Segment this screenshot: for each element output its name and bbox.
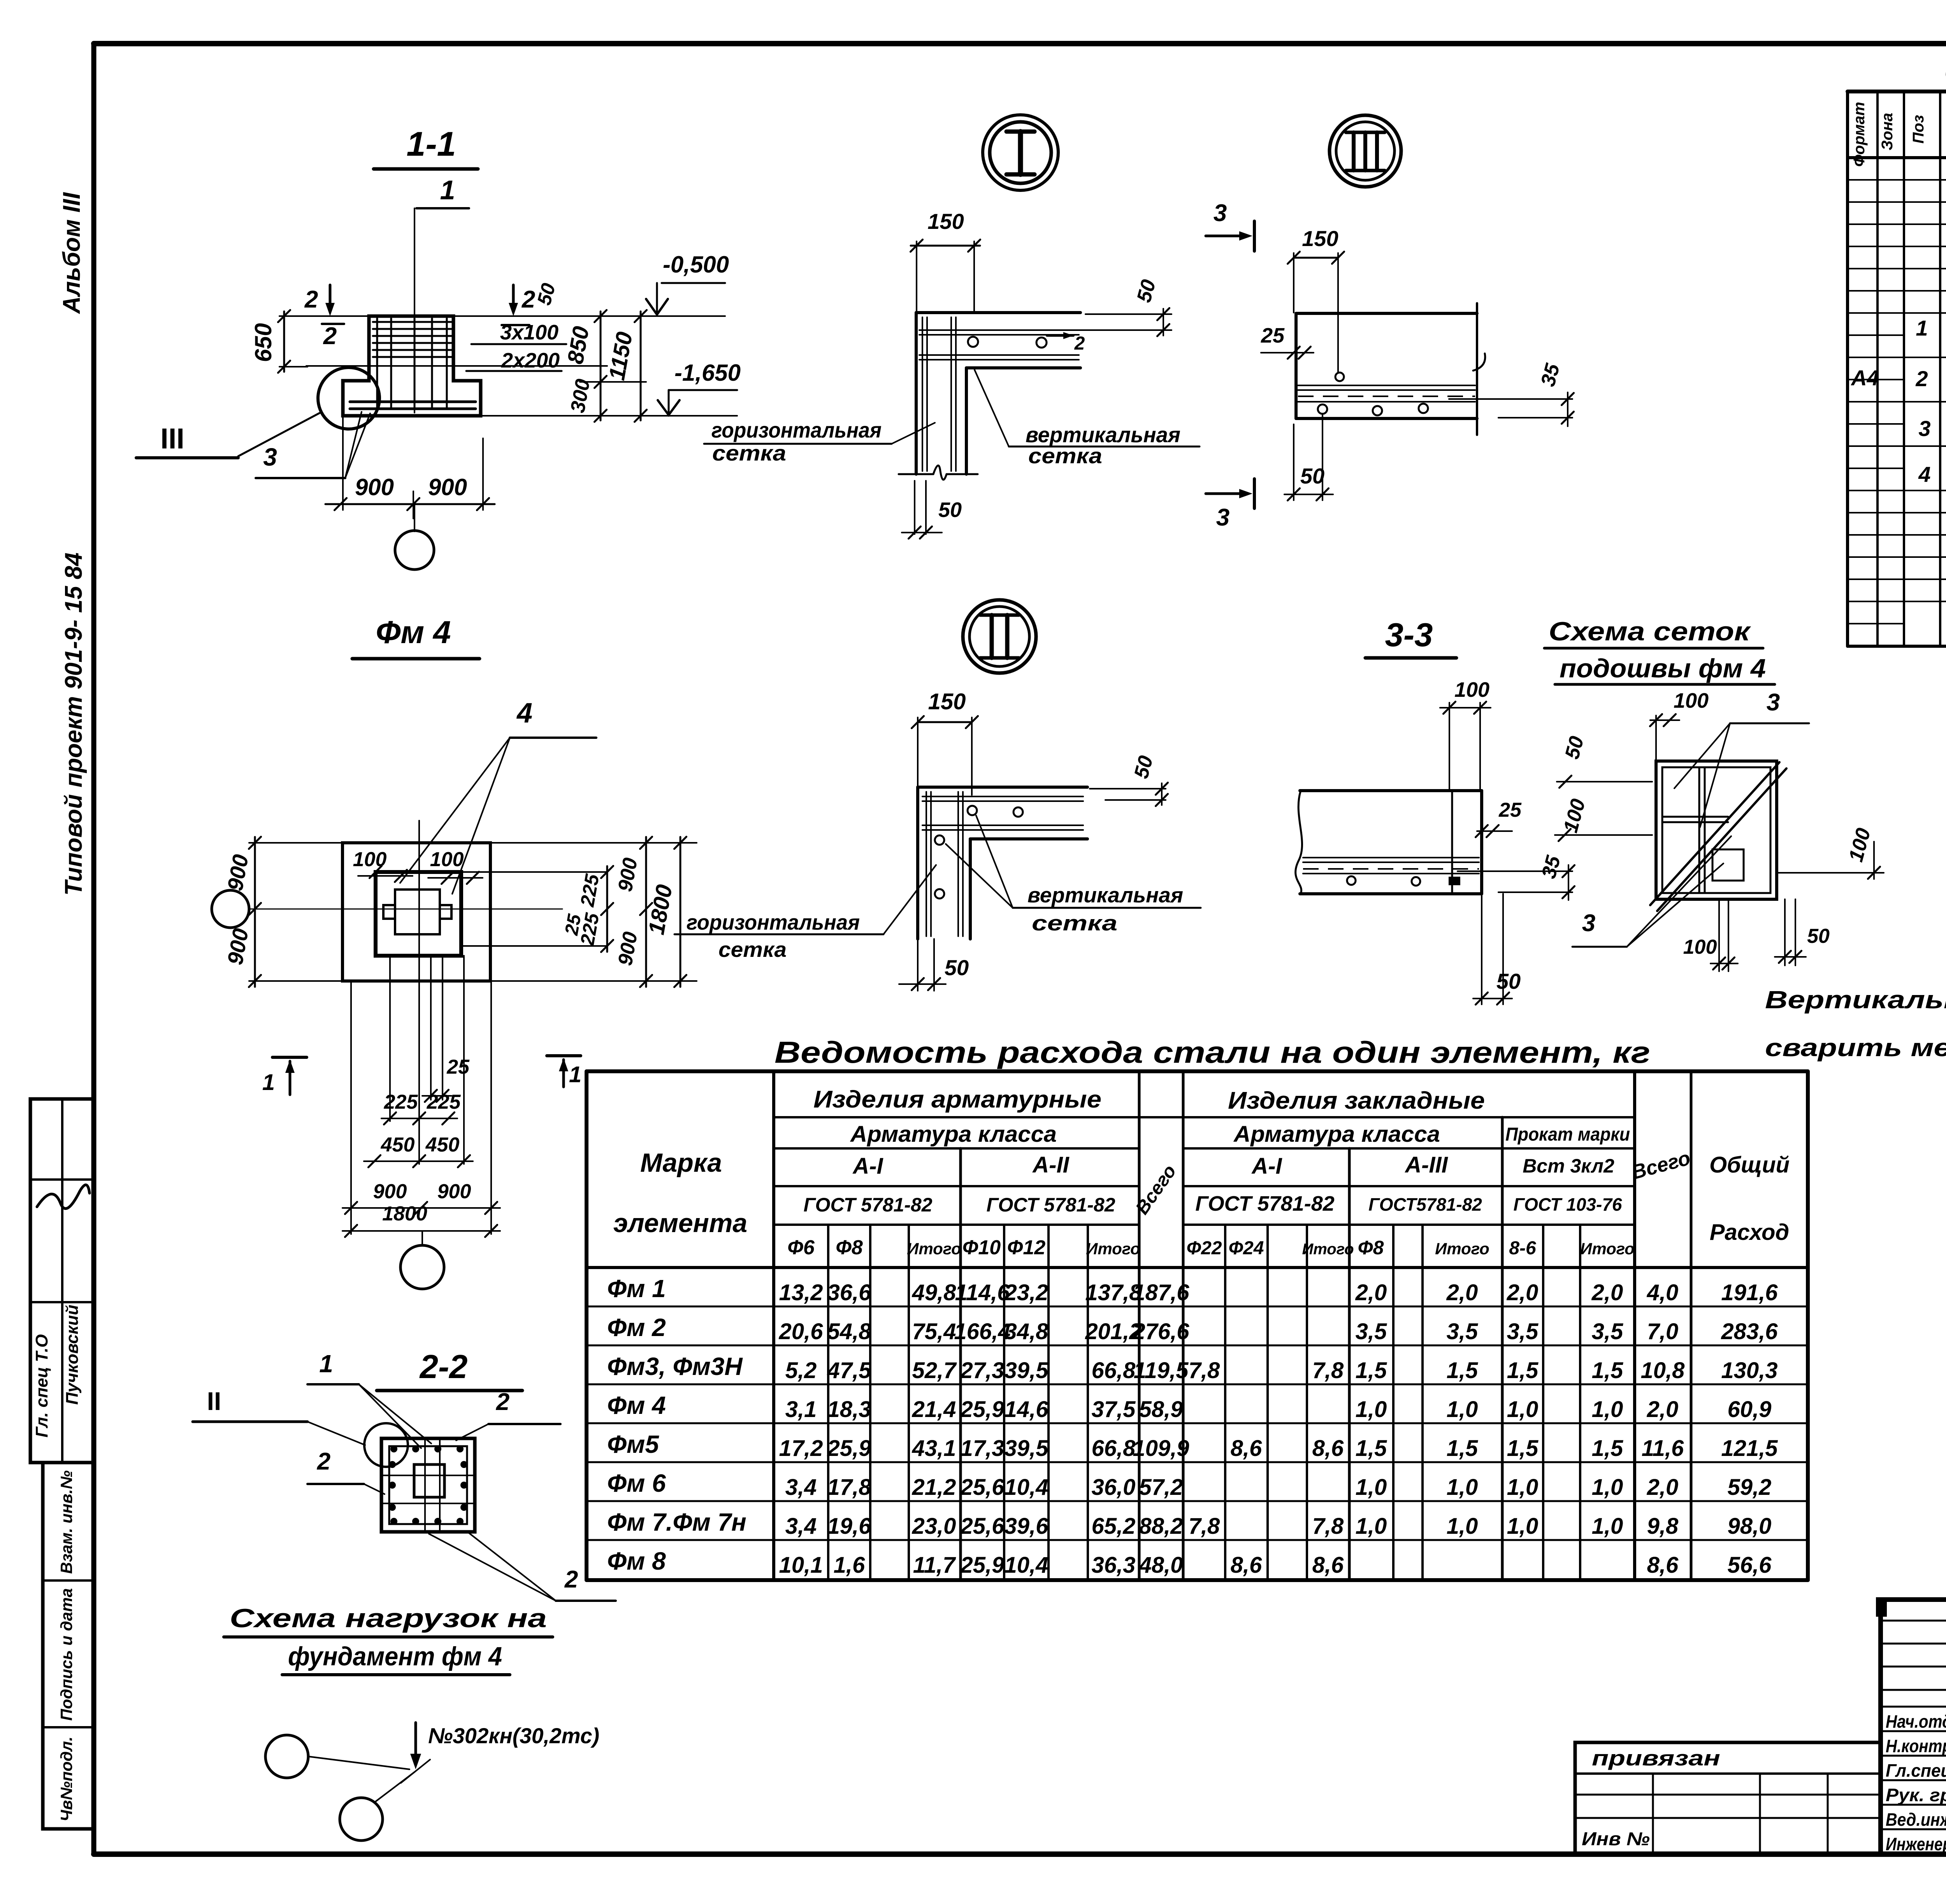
svg-text:ГОСТ 5781-82: ГОСТ 5781-82: [803, 1194, 932, 1216]
svg-text:150: 150: [928, 689, 966, 714]
steel table grid: [587, 1071, 1808, 1580]
detail II horizontal mesh bars: [922, 796, 1083, 830]
svg-text:56,6: 56,6: [1728, 1552, 1772, 1578]
schema title Схема сеток подошвы Фм4: [1544, 617, 1775, 684]
extension lines right of footing: [306, 316, 737, 416]
svg-text:3x100: 3x100: [500, 321, 559, 344]
svg-text:III: III: [160, 422, 184, 455]
svg-text:1,5: 1,5: [1592, 1358, 1623, 1383]
svg-text:1: 1: [262, 1070, 275, 1095]
svg-text:А-II: А-II: [1032, 1152, 1070, 1178]
svg-text:11,6: 11,6: [1642, 1436, 1684, 1461]
svg-text:2: 2: [1074, 333, 1085, 354]
svg-text:А4: А4: [1850, 366, 1879, 390]
svg-text:1,5: 1,5: [1356, 1358, 1387, 1383]
svg-text:А-III: А-III: [1404, 1152, 1448, 1178]
svg-text:Фм 7.Фм 7н: Фм 7.Фм 7н: [607, 1508, 746, 1536]
svg-text:1: 1: [440, 175, 455, 205]
plan dim 225 225 bottom: [381, 1091, 461, 1125]
svg-text:сетка: сетка: [718, 937, 787, 962]
svg-text:1: 1: [569, 1062, 581, 1087]
svg-text:сетка: сетка: [1028, 443, 1102, 468]
label 1 with leaders: [307, 1350, 431, 1448]
svg-text:2: 2: [496, 1389, 509, 1415]
svg-text:20,6: 20,6: [779, 1319, 824, 1344]
schema mesh inner square: [1662, 767, 1770, 893]
plan dim 900 900 right: [614, 837, 652, 987]
svg-text:23,0: 23,0: [912, 1514, 956, 1539]
svg-text:Итого: Итого: [1302, 1241, 1354, 1258]
svg-text:49,8: 49,8: [912, 1280, 957, 1305]
svg-text:54,8: 54,8: [827, 1319, 872, 1344]
svg-text:36,0: 36,0: [1092, 1475, 1136, 1500]
svg-text:4: 4: [516, 698, 532, 729]
svg-text:привязан: привязан: [1592, 1746, 1720, 1770]
schema diagonal bars: [1650, 762, 1786, 911]
detail III slab outline: [1296, 303, 1477, 435]
svg-text:ГОСТ5781-82: ГОСТ5781-82: [1368, 1194, 1482, 1215]
svg-text:1,0: 1,0: [1356, 1397, 1387, 1422]
svg-text:900: 900: [428, 474, 467, 500]
detail II marker circle: [963, 600, 1036, 673]
detail II bar sections: [935, 806, 1023, 898]
svg-text:50: 50: [938, 498, 962, 522]
svg-text:1800: 1800: [382, 1203, 427, 1225]
section 3-3 dim 50: [1473, 894, 1521, 1005]
svg-text:900: 900: [355, 474, 394, 500]
section 3-3 dim 35: [1458, 853, 1575, 900]
svg-text:25,6: 25,6: [960, 1514, 1005, 1539]
svg-text:Ф12: Ф12: [1007, 1236, 1046, 1259]
svg-text:Рук. гр: Рук. гр: [1886, 1785, 1946, 1805]
svg-text:1,0: 1,0: [1592, 1475, 1623, 1500]
section mark 2 right with 50: [502, 281, 560, 325]
svg-text:10,1: 10,1: [779, 1552, 823, 1578]
axis bubble 2 with leader: [340, 1772, 414, 1841]
svg-text:17,2: 17,2: [779, 1436, 823, 1461]
svg-text:3: 3: [1216, 504, 1229, 531]
plan outer square: [342, 843, 490, 981]
svg-text:3: 3: [263, 443, 277, 471]
svg-text:Изделия арматурные: Изделия арматурные: [813, 1086, 1101, 1113]
svg-text:50: 50: [945, 955, 969, 980]
svg-text:Фм 1: Фм 1: [607, 1275, 666, 1303]
svg-text:900: 900: [437, 1180, 471, 1203]
svg-text:187,6: 187,6: [1133, 1280, 1189, 1305]
detail I dim 150: [910, 209, 980, 311]
svg-text:№302кн(30,2тс): №302кн(30,2тс): [428, 1723, 599, 1748]
detail II dim 150: [912, 689, 978, 795]
svg-text:1,0: 1,0: [1447, 1397, 1478, 1422]
plan dim 900 900 bottom: [342, 1180, 500, 1214]
steel table data rows: [607, 1275, 1778, 1578]
svg-text:сетка: сетка: [712, 441, 786, 465]
svg-text:109,9: 109,9: [1133, 1436, 1189, 1461]
svg-text:650: 650: [250, 323, 276, 362]
dim 650 left of footing: [250, 310, 370, 373]
svg-text:7,8: 7,8: [1312, 1358, 1344, 1383]
detail III dim 50 bottom: [1284, 415, 1333, 501]
svg-text:19,6: 19,6: [827, 1514, 872, 1539]
detail I vertical mesh bars: [922, 317, 956, 471]
svg-text:1,0: 1,0: [1447, 1514, 1478, 1539]
schema small mesh square: [1712, 849, 1744, 881]
detail I label горизонтальная сетка: [704, 418, 935, 465]
svg-text:Взам. инв.№: Взам. инв.№: [57, 1470, 76, 1574]
svg-text:48,0: 48,0: [1139, 1552, 1183, 1578]
svg-text:1,0: 1,0: [1507, 1514, 1539, 1539]
section 3-3 dim 100: [1440, 678, 1491, 791]
svg-text:100: 100: [353, 848, 387, 871]
detail II label горизонтальная сетка: [674, 865, 936, 962]
svg-text:А-I: А-I: [852, 1153, 883, 1179]
left stamp box lower (Взам.инв / Подпись и дата / Инвподл): [43, 1463, 94, 1829]
svg-text:900: 900: [373, 1180, 407, 1203]
label II with leader: [193, 1387, 365, 1445]
plan anchor plate: [395, 890, 440, 934]
svg-text:23,2: 23,2: [1004, 1280, 1049, 1305]
svg-text:Прокат марки: Прокат марки: [1505, 1124, 1630, 1145]
svg-text:39,6: 39,6: [1005, 1514, 1049, 1539]
svg-text:450: 450: [425, 1134, 460, 1156]
svg-text:-1,650: -1,650: [674, 360, 741, 386]
svg-text:1,5: 1,5: [1447, 1358, 1478, 1383]
svg-text:4,0: 4,0: [1647, 1280, 1679, 1305]
svg-text:9,8: 9,8: [1647, 1514, 1679, 1539]
svg-text:5,2: 5,2: [785, 1358, 817, 1383]
detail I dim 50 bottom: [902, 481, 962, 539]
svg-text:Н.контр: Н.контр: [1886, 1736, 1946, 1756]
svg-text:25: 25: [1261, 324, 1285, 347]
svg-text:7,0: 7,0: [1647, 1319, 1679, 1344]
section 1-1 title: [374, 125, 478, 169]
svg-text:2: 2: [1915, 366, 1928, 391]
svg-text:47,5: 47,5: [827, 1358, 872, 1383]
svg-text:2,0: 2,0: [1591, 1280, 1623, 1305]
svg-text:3,1: 3,1: [785, 1397, 817, 1422]
detail III dim 150: [1287, 226, 1344, 373]
detail II marker circle on 2-2: [364, 1423, 408, 1467]
svg-text:98,0: 98,0: [1728, 1514, 1772, 1539]
svg-text:100: 100: [1454, 678, 1489, 701]
svg-text:Схема нагрузок на: Схема нагрузок на: [230, 1603, 547, 1633]
plan axis bubble bottom: [400, 1231, 444, 1289]
schema dim 100 left: [1555, 796, 1652, 841]
svg-text:191,6: 191,6: [1721, 1280, 1778, 1305]
svg-text:13,2: 13,2: [779, 1280, 823, 1305]
level mark -0,500: [646, 251, 729, 315]
svg-text:25,6: 25,6: [960, 1475, 1005, 1500]
plan vertical centerline: [418, 821, 420, 956]
svg-text:2: 2: [304, 286, 318, 313]
detail I dim 50 right: [1056, 277, 1171, 336]
svg-text:Итого: Итого: [1435, 1239, 1489, 1258]
svg-text:52,7: 52,7: [912, 1358, 957, 1383]
svg-text:283,6: 283,6: [1721, 1319, 1778, 1344]
schema mesh outer square: [1656, 761, 1777, 899]
svg-text:100: 100: [430, 848, 464, 871]
svg-text:25,9: 25,9: [827, 1436, 871, 1461]
svg-text:150: 150: [927, 209, 964, 234]
svg-text:Итого: Итого: [1580, 1239, 1635, 1258]
svg-text:11,7: 11,7: [913, 1552, 956, 1578]
svg-text:Нач.отд: Нач.отд: [1886, 1711, 1946, 1732]
svg-text:3,4: 3,4: [785, 1514, 817, 1539]
svg-text:8-6: 8-6: [1509, 1238, 1536, 1259]
svg-text:Фм 4: Фм 4: [607, 1391, 666, 1419]
detail III marker circle on footing: [318, 367, 379, 429]
svg-text:Итого: Итого: [907, 1239, 961, 1258]
schema dim 50 left: [1557, 734, 1652, 788]
plan dim 900 900 left: [223, 837, 344, 987]
svg-text:43,1: 43,1: [912, 1436, 956, 1461]
plan dim 450 450 bottom: [364, 1134, 473, 1167]
detail III dim 35 right: [1449, 361, 1574, 426]
svg-text:25,9: 25,9: [960, 1552, 1005, 1578]
schema mesh cross bars: [1662, 767, 1728, 893]
svg-text:Ф22: Ф22: [1187, 1238, 1222, 1259]
spec table header texts: [1851, 98, 1946, 167]
svg-text:Изделия закладные: Изделия закладные: [1228, 1087, 1485, 1114]
title block signature rows: [1886, 1711, 1946, 1854]
left stamp box upper (Гл.спец Т.О Пучковский): [30, 1099, 94, 1463]
plan pedestal square: [376, 872, 461, 956]
svg-text:88,2: 88,2: [1139, 1514, 1183, 1539]
svg-text:36,3: 36,3: [1092, 1552, 1136, 1578]
svg-text:Фм 2: Фм 2: [607, 1313, 666, 1341]
title block grid: [1881, 1600, 1946, 1854]
svg-text:1,5: 1,5: [1507, 1358, 1539, 1383]
svg-text:36,6: 36,6: [827, 1280, 872, 1305]
plan axis bubble left: [212, 890, 562, 928]
label 2 top-right: [456, 1389, 560, 1440]
svg-text:27,3: 27,3: [960, 1358, 1005, 1383]
svg-text:1,5: 1,5: [1592, 1436, 1623, 1461]
svg-text:166,4: 166,4: [954, 1319, 1010, 1344]
plan dim 100 100 top: [353, 848, 483, 884]
section arrow 3 bottom: [1206, 479, 1254, 531]
dim 1150: [604, 310, 647, 422]
svg-text:Чв№подл.: Чв№подл.: [57, 1737, 76, 1821]
svg-text:60,9: 60,9: [1728, 1397, 1772, 1422]
detail I horizontal mesh bars: [919, 330, 1079, 360]
svg-text:Ф8: Ф8: [1358, 1237, 1384, 1259]
svg-text:Гл. спец Т.О: Гл. спец Т.О: [32, 1334, 51, 1437]
svg-text:1,0: 1,0: [1507, 1397, 1539, 1422]
footing 1-1 outline: [343, 316, 481, 416]
svg-text:10,4: 10,4: [1005, 1552, 1049, 1578]
schema dim 100 bottom: [1683, 899, 1738, 971]
svg-text:3-3: 3-3: [1385, 617, 1433, 654]
svg-text:7,8: 7,8: [1189, 1358, 1220, 1383]
svg-text:1: 1: [319, 1350, 333, 1378]
svg-text:Схема сеток: Схема сеток: [1549, 617, 1751, 646]
detail II label вертикальная сетка: [946, 816, 1201, 935]
detail I marker circle: [983, 115, 1058, 190]
plan lower extension lines: [351, 956, 491, 1234]
svg-text:50: 50: [1496, 969, 1521, 993]
svg-text:8,6: 8,6: [1312, 1552, 1344, 1578]
svg-text:Ф6: Ф6: [787, 1236, 815, 1259]
svg-text:Инв №: Инв №: [1582, 1829, 1650, 1849]
svg-text:65,2: 65,2: [1092, 1514, 1136, 1539]
axis bubble under 1-1: [395, 504, 434, 570]
detail II dim 50 right: [1090, 753, 1168, 806]
svg-text:1,5: 1,5: [1356, 1436, 1387, 1461]
load arrow N=302kn: [401, 1723, 599, 1783]
svg-text:3,5: 3,5: [1507, 1319, 1539, 1344]
svg-text:25: 25: [561, 912, 585, 937]
svg-text:100: 100: [1674, 689, 1709, 712]
svg-text:Фм 6: Фм 6: [607, 1469, 666, 1497]
svg-text:21,4: 21,4: [912, 1397, 956, 1422]
schema label 3 bottom with leaders: [1572, 836, 1731, 947]
svg-text:2,0: 2,0: [1647, 1397, 1679, 1422]
label 4 with leaders to anchor plates: [400, 698, 596, 894]
section arrow 1 left below plan: [262, 1057, 307, 1095]
footing 1-1 vertical bars: [377, 318, 447, 409]
svg-text:1-1: 1-1: [406, 125, 456, 163]
svg-text:3: 3: [1214, 200, 1227, 227]
svg-text:2x200: 2x200: [501, 349, 560, 372]
detail III marker circle: [1330, 115, 1401, 187]
svg-text:Формат: Формат: [1851, 102, 1868, 167]
section 3-3 title: [1365, 617, 1456, 658]
detail II dim 50 bottom: [899, 939, 969, 991]
svg-text:А-I: А-I: [1251, 1153, 1282, 1179]
footing 1-1 upper mesh bars: [373, 322, 451, 357]
svg-text:Расход: Расход: [1710, 1220, 1790, 1245]
svg-text:50: 50: [1807, 925, 1830, 948]
dim 850 and 300: [562, 310, 606, 422]
svg-text:37,5: 37,5: [1092, 1397, 1136, 1422]
svg-text:1: 1: [1916, 316, 1928, 340]
svg-text:114,6: 114,6: [955, 1280, 1010, 1305]
svg-text:130,3: 130,3: [1721, 1358, 1777, 1383]
svg-text:Ф10: Ф10: [962, 1236, 1001, 1259]
section 2-2 title: [377, 1348, 522, 1391]
svg-text:Марка: Марка: [640, 1148, 722, 1178]
svg-text:ГОСТ 5781-82: ГОСТ 5781-82: [986, 1194, 1115, 1216]
label 2 left: [307, 1448, 385, 1494]
schema dim 100 right: [1777, 826, 1884, 879]
svg-text:2-2: 2-2: [419, 1348, 468, 1385]
detail I label вертикальная сетка: [975, 370, 1200, 468]
svg-text:276,6: 276,6: [1132, 1319, 1189, 1344]
section 3-3 dim 25: [1475, 799, 1522, 837]
plan dim 25 bottom: [422, 1056, 470, 1102]
svg-text:450: 450: [381, 1134, 415, 1156]
svg-text:ГОСТ 103-76: ГОСТ 103-76: [1514, 1194, 1622, 1215]
svg-text:1,0: 1,0: [1356, 1475, 1387, 1500]
svg-text:Поз: Поз: [1910, 115, 1927, 144]
svg-text:Ведомость расхода стали на оди: Ведомость расхода стали на один элемент,…: [775, 1035, 1650, 1069]
svg-text:горизонтальная: горизонтальная: [687, 910, 860, 934]
detail III dim 25: [1261, 324, 1314, 359]
svg-text:1,5: 1,5: [1507, 1436, 1539, 1461]
svg-text:Пучковский: Пучковский: [63, 1304, 82, 1405]
svg-text:25: 25: [446, 1056, 470, 1078]
svg-text:50: 50: [1300, 464, 1324, 488]
section 2-2 square: [381, 1438, 475, 1532]
section arrow 1 right below plan: [547, 1056, 581, 1087]
svg-text:75,4: 75,4: [912, 1319, 956, 1344]
svg-text:Фм 4: Фм 4: [376, 615, 451, 650]
svg-text:2: 2: [323, 323, 337, 350]
svg-text:Общий: Общий: [1709, 1152, 1790, 1178]
svg-text:вертикальная: вертикальная: [1027, 883, 1183, 907]
plan Фм4 title: [352, 615, 479, 659]
svg-text:119,5: 119,5: [1134, 1358, 1189, 1383]
svg-text:18,3: 18,3: [827, 1397, 871, 1422]
svg-text:1,0: 1,0: [1592, 1514, 1623, 1539]
svg-text:7,8: 7,8: [1312, 1514, 1344, 1539]
section mark 1 above footing: [414, 175, 469, 413]
svg-text:горизонтальная: горизонтальная: [711, 418, 882, 442]
svg-text:66,8: 66,8: [1092, 1436, 1136, 1461]
svg-text:Фм5: Фм5: [607, 1430, 659, 1458]
section 2-2 cross bars: [381, 1438, 475, 1532]
load schema title: [224, 1603, 553, 1675]
svg-text:58,9: 58,9: [1139, 1397, 1183, 1422]
svg-text:8,6: 8,6: [1231, 1436, 1262, 1461]
svg-text:2: 2: [317, 1448, 330, 1475]
detail III mesh bars: [1298, 353, 1485, 402]
detail III bar sections: [1318, 373, 1428, 415]
svg-text:150: 150: [1302, 226, 1338, 251]
svg-text:Вст 3кл2: Вст 3кл2: [1523, 1155, 1614, 1177]
svg-text:2,0: 2,0: [1355, 1280, 1387, 1305]
svg-text:34,8: 34,8: [1005, 1319, 1049, 1344]
svg-text:10,4: 10,4: [1005, 1475, 1049, 1500]
plan right extension lines: [461, 843, 697, 981]
section 3-3 bar sections: [1347, 876, 1460, 886]
axis bubble with line: [265, 1735, 409, 1778]
svg-text:сварить между собой в каждом п: сварить между собой в каждом пересечении: [1765, 1034, 1946, 1062]
section 2-2 rebar dots: [389, 1445, 467, 1525]
dim 900 900 under footing: [325, 416, 495, 519]
schema dim 100 top: [1650, 689, 1709, 761]
svg-text:1,0: 1,0: [1507, 1475, 1539, 1500]
svg-text:39,5: 39,5: [1005, 1358, 1049, 1383]
level mark -1,650: [658, 360, 741, 415]
svg-text:ГОСТ 5781-82: ГОСТ 5781-82: [1195, 1192, 1335, 1215]
svg-text:14,6: 14,6: [1005, 1397, 1049, 1422]
svg-text:25: 25: [1498, 799, 1522, 821]
svg-text:3,5: 3,5: [1447, 1319, 1478, 1344]
svg-text:фундамент фм 4: фундамент фм 4: [288, 1642, 502, 1671]
svg-text:Фм3, Фм3Н: Фм3, Фм3Н: [607, 1352, 743, 1380]
svg-text:Ф24: Ф24: [1229, 1238, 1264, 1259]
svg-text:8,6: 8,6: [1231, 1552, 1262, 1578]
svg-text:2: 2: [564, 1566, 578, 1593]
svg-text:3,4: 3,4: [785, 1475, 817, 1500]
svg-text:Арматура класса: Арматура класса: [1233, 1122, 1440, 1147]
svg-text:121,5: 121,5: [1721, 1436, 1778, 1461]
svg-text:Спецификация фундамента: Спецификация фундамента: [1944, 56, 1946, 89]
svg-text:Гл.спец: Гл.спец: [1886, 1760, 1946, 1781]
annex table привязан: [1575, 1742, 1881, 1854]
svg-text:Итого: Итого: [1086, 1239, 1140, 1258]
svg-text:8,6: 8,6: [1312, 1436, 1344, 1461]
svg-text:17,8: 17,8: [827, 1475, 872, 1500]
svg-text:1,0: 1,0: [1356, 1514, 1387, 1539]
svg-text:3: 3: [1767, 689, 1780, 716]
svg-text:57,2: 57,2: [1139, 1475, 1183, 1500]
svg-text:Вертикальную и горизонтальную: Вертикальную и горизонтальную арматуру ф…: [1765, 986, 1946, 1014]
section 3-3 slab outline: [1296, 791, 1482, 894]
section arrow 3 top: [1206, 200, 1254, 251]
